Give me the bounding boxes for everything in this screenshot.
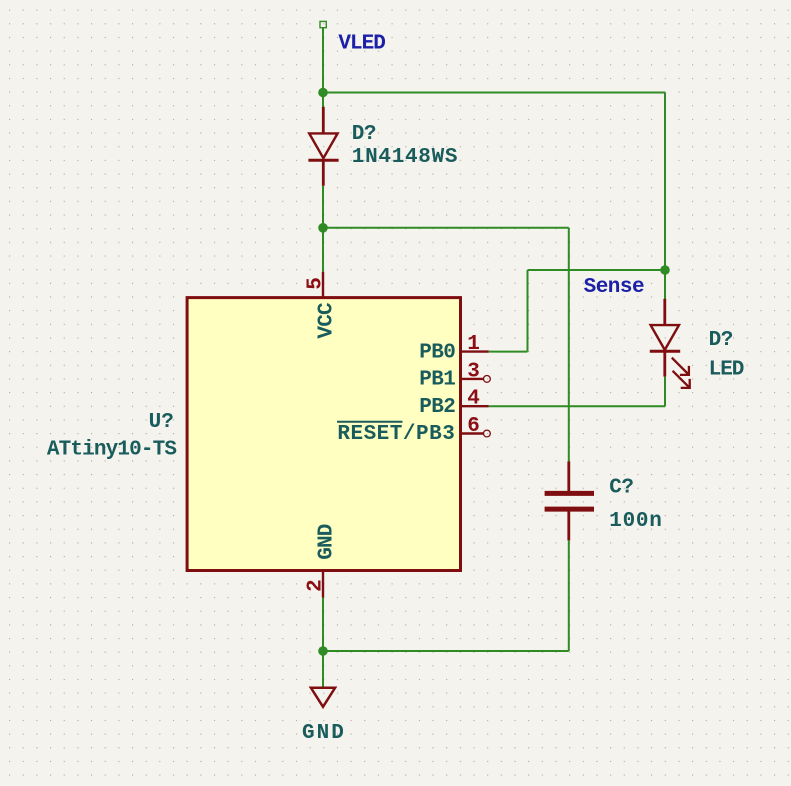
wire PB0 to sense corner [489, 351, 528, 353]
pin number 4 [467, 388, 480, 411]
pin name RESET/PB3 with overbar [337, 422, 455, 447]
net label Sense [584, 276, 645, 299]
svg-text:Sense: Sense [584, 276, 645, 299]
reference label U? [149, 411, 174, 434]
wire VLED to diode [322, 93, 324, 108]
wire ground rail horizontal [323, 650, 569, 652]
svg-text:ATtiny10-TS: ATtiny10-TS [47, 439, 177, 462]
pin 4 PB2 [461, 405, 489, 407]
reference label D? (LED) [709, 329, 733, 352]
svg-text:6: 6 [467, 415, 480, 438]
pin number 1 [467, 333, 480, 356]
wire to capacitor branch horizontal [323, 227, 569, 229]
svg-text:5: 5 [305, 277, 328, 290]
wire junction to LED [664, 270, 666, 299]
junction at LED anode [660, 265, 670, 275]
wire sense horizontal [528, 269, 666, 271]
ground label GND [302, 722, 346, 745]
svg-text:C?: C? [609, 476, 633, 499]
svg-text:PB0: PB0 [419, 341, 455, 364]
svg-text:4: 4 [467, 388, 480, 411]
pin 6 RESET/PB3 (unconnected) [461, 430, 491, 437]
pin name PB1 [419, 369, 455, 392]
wire LED bottom horizontal to pin 4 [489, 405, 665, 407]
wire junction to VCC pin [322, 228, 324, 272]
pin 2 GND (bottom) [322, 571, 324, 598]
diode D? symbol [308, 107, 338, 186]
value label LED [709, 359, 744, 382]
wire LED to PB2 corner [664, 377, 666, 407]
ground symbol [311, 688, 335, 707]
svg-text:U?: U? [149, 411, 174, 434]
svg-text:3: 3 [467, 360, 480, 383]
pin 5 VCC (top) [322, 272, 324, 298]
pin 1 PB0 [461, 350, 489, 352]
svg-text:PB1: PB1 [419, 369, 455, 392]
value label 1N4148WS [352, 146, 458, 169]
net label VLED [338, 32, 385, 55]
wire top horizontal [323, 92, 665, 94]
dangling wire end square at VLED [320, 21, 326, 27]
svg-text:2: 2 [305, 579, 328, 592]
junction below diode [318, 223, 328, 233]
svg-text:D?: D? [709, 329, 733, 352]
junction at ground node [318, 646, 328, 656]
svg-text:1: 1 [467, 333, 480, 356]
capacitor C? symbol [545, 462, 594, 541]
pin number 5 [305, 277, 328, 290]
wire VLED vertical top [322, 28, 324, 93]
value label 100n [609, 510, 662, 533]
svg-text:D?: D? [352, 123, 376, 146]
pin name VCC [315, 302, 338, 339]
svg-text:RESET/PB3: RESET/PB3 [337, 423, 455, 446]
svg-text:1N4148WS: 1N4148WS [352, 146, 458, 169]
reference label C? [609, 476, 633, 499]
wire right vertical upper [664, 93, 666, 271]
value label ATtiny10-TS [47, 439, 177, 462]
wire diode to junction 2 [322, 186, 324, 228]
pin 3 PB1 (unconnected) [461, 376, 491, 383]
wire pin2 to ground junction [322, 598, 324, 651]
pin number 2 [305, 579, 328, 592]
pin number 6 [467, 415, 480, 438]
wire capacitor branch vertical [568, 228, 570, 462]
svg-text:VLED: VLED [338, 32, 385, 55]
svg-text:100n: 100n [609, 510, 662, 533]
pin name PB2 [419, 396, 455, 419]
svg-text:LED: LED [709, 359, 744, 382]
wire junction to GND symbol [322, 651, 324, 687]
svg-text:GND: GND [302, 722, 346, 745]
wire sense vertical [527, 270, 529, 352]
reference label D? (diode) [352, 123, 376, 146]
pin number 3 [467, 360, 480, 383]
pin name GND [315, 524, 338, 560]
IC U? body ATtiny10-TS [187, 298, 460, 571]
LED D? symbol [650, 299, 690, 388]
pin name PB0 [419, 341, 455, 364]
junction at VLED node [318, 88, 328, 98]
svg-text:GND: GND [315, 524, 338, 560]
svg-text:PB2: PB2 [419, 396, 455, 419]
svg-text:VCC: VCC [315, 302, 338, 339]
wire capacitor to ground rail [568, 540, 570, 651]
